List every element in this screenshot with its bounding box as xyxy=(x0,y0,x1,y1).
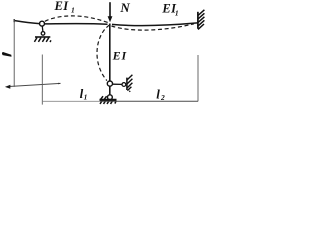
extension line under left support xyxy=(41,55,43,105)
link bar of left support xyxy=(41,26,44,31)
svg-text:l: l xyxy=(156,86,160,101)
ground hatching bottom pin xyxy=(100,96,116,104)
beam left end tick xyxy=(13,19,15,22)
dashed buckled shape right span xyxy=(112,24,195,30)
svg-text:2: 2 xyxy=(160,93,165,102)
label l (rotated) xyxy=(2,52,12,57)
wire beam mid span xyxy=(45,23,108,26)
dashed buckled shape column xyxy=(97,25,110,81)
column EI xyxy=(109,24,111,96)
svg-text:EI: EI xyxy=(54,0,70,13)
ground line bottom pin xyxy=(100,99,117,102)
fixed support wall right end xyxy=(197,12,199,29)
svg-text:EI: EI xyxy=(112,48,128,62)
svg-text:N: N xyxy=(119,0,130,15)
wall line of link support xyxy=(126,78,128,90)
lower hinge of left link support xyxy=(41,32,45,36)
beam left span xyxy=(14,21,39,24)
link end hinge circle xyxy=(122,83,126,87)
ground hatching left support xyxy=(34,38,51,43)
horizontal link bar xyxy=(113,83,122,85)
wall hatching of link support xyxy=(127,75,132,92)
left dimension extension line xyxy=(13,19,15,87)
wire beam right span xyxy=(112,23,198,26)
load N arrow xyxy=(109,2,111,17)
ground line left support xyxy=(35,36,50,38)
bottom dimension line xyxy=(42,100,100,102)
svg-text:1: 1 xyxy=(84,93,88,102)
wall hatching right support xyxy=(198,10,204,30)
svg-text:1: 1 xyxy=(175,8,179,17)
dimension arrow l xyxy=(9,83,61,86)
svg-text:1: 1 xyxy=(71,6,75,15)
dashed buckled shape left span xyxy=(45,16,109,23)
hinge circle A on beam xyxy=(40,21,45,26)
hinge circle on column mid xyxy=(107,81,112,86)
extension line under right support xyxy=(197,55,199,101)
bottom hinge circle of column xyxy=(108,95,113,100)
